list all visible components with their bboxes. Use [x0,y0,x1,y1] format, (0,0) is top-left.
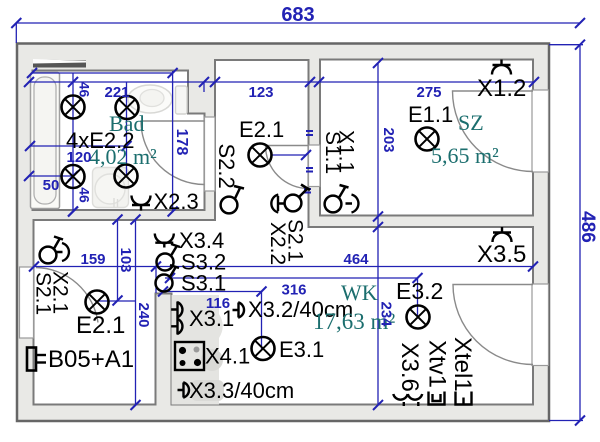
svg-text:240: 240 [135,302,152,327]
vert to lamp E3.2 x=417.5 [417,278,419,317]
lamp E3.2 [407,306,430,329]
tel socket Xtel1 bottom wall [456,392,472,405]
svg-text:X2.3: X2.3 [154,189,199,214]
vert through bath lamps left x=73 [72,73,74,212]
svg-text:46: 46 [76,187,92,203]
svg-text:234: 234 [378,301,395,327]
SZ balcony door leaf + arc [453,91,534,172]
socket X3.2 counter [233,302,245,317]
dim 683 line top [16,22,580,24]
socket X3.1 kitchen wall (double) [171,302,182,335]
svg-text:178: 178 [173,129,190,156]
switch S1.1 SZ [325,185,349,212]
svg-text:E1.1: E1.1 [408,102,453,127]
switch S3.2 [157,244,181,271]
toilet [176,86,188,114]
svg-text:S2.2: S2.2 [214,144,239,189]
WK balcony door opening [532,284,549,366]
vert 240 x=135.5 [135,220,137,406]
vert through bath lamps right x=126.5 [126,82,128,176]
lamp E2.1 room [86,291,109,314]
lamp E3.1 [252,337,275,360]
lamp bath 2 [116,96,139,119]
WK balcony door leaf + arc [453,285,533,365]
svg-text:X3.5: X3.5 [477,241,526,268]
svg-text:S2.1: S2.1 [284,219,307,262]
bathtub [31,73,60,209]
kitchen counter [172,295,223,405]
dim line 159/464 y=266.5 [34,266,533,268]
entrance door arc [36,268,98,323]
building outer wall block [17,44,549,422]
svg-text:Xtv1: Xtv1 [424,340,451,388]
interior: bedroom SZ [320,60,533,216]
socket X3.3 sink [178,382,190,397]
svg-text:116: 116 [206,295,230,312]
bathroom door opening [205,117,216,191]
svg-text:X1.1: X1.1 [335,130,358,173]
interior: bathroom [33,71,205,211]
svg-text:4,02 m²: 4,02 m² [89,144,157,169]
svg-text:B05+A1: B05+A1 [48,346,134,373]
switch S2.1 hall bottom [285,185,310,212]
svg-text:46: 46 [76,82,92,98]
dim line B y=82 [28,81,534,83]
svg-text:50: 50 [43,177,60,194]
bathroom shelf/mirror [33,60,86,68]
entrance door opening (left wall niche) [20,267,34,338]
svg-text:203: 203 [380,127,397,152]
socket X3.6 bottom wall (double) [393,394,407,406]
svg-text:120: 120 [66,149,91,166]
svg-text:275: 275 [416,84,441,101]
vert 203/234 x=378 [377,63,379,405]
dim line 116 y=292 [163,291,262,293]
socket X2.1 room [56,243,69,261]
switch S3.1 [156,265,180,292]
svg-text:SZ: SZ [458,110,484,135]
hall door opening [309,145,321,187]
vert 103 x=117.5 [117,220,119,301]
stove X4.1 [175,342,204,370]
svg-text:E3.2: E3.2 [396,278,443,304]
svg-text:WK: WK [341,280,378,305]
vert short x=204 [203,82,205,92]
distribution board B05+A1 [27,348,46,371]
interior: hall + WK + lower room (white) [34,60,534,405]
vert x=156 [155,267,157,294]
svg-text:E2.1: E2.1 [239,117,284,142]
svg-text:486: 486 [577,211,598,243]
vert to lamp E3.1 x=261.5 [261,292,263,350]
socket X2.2 hall bottom (mirrored) [271,195,284,213]
SZ balcony door opening [532,90,549,172]
lamp bath 1 [62,96,85,119]
svg-text:E3.1: E3.1 [279,337,324,362]
svg-text:X4.1: X4.1 [205,344,250,369]
svg-text:123: 123 [248,84,273,101]
vert 178 x=172.6 [172,71,174,212]
hall door leaf + arc [266,146,309,189]
socket X3.4 above S3.2 [155,234,174,248]
svg-text:159: 159 [80,251,105,268]
svg-text:221: 221 [104,84,129,101]
dim line A y=73 bath [32,72,173,74]
socket X1.1 SZ [346,195,359,213]
svg-text:X3.6: X3.6 [396,343,423,392]
wash basin [93,168,129,208]
lamp E2.1 hall [249,144,272,167]
switch S2.1 room [40,237,63,264]
svg-text:Bad: Bad [109,111,144,136]
wiring = marks on hall/SZ wall [304,131,313,193]
tv socket Xtv1 bottom wall [429,392,445,405]
lamp bath 3 [62,165,85,188]
dim line 50 y=176 [29,175,73,177]
svg-text:683: 683 [281,4,314,26]
svg-text:X2.1: X2.1 [49,271,72,314]
lamp E1.1 [416,128,439,151]
switch S2.2 hall [221,186,244,213]
dim line 316 y=278 [165,277,418,279]
socket X3.5 top of WK wall [493,227,512,242]
svg-text:464: 464 [343,251,369,268]
svg-text:X1.2: X1.2 [477,75,526,102]
svg-text:S3.1: S3.1 [181,271,226,296]
svg-text:E2.1: E2.1 [76,312,125,339]
dim 486 line right [579,45,581,421]
socket X1.2 top wall [492,60,511,75]
bathroom door leaf + arc [141,121,205,185]
dim line 103 end y=301 [98,300,136,302]
svg-text:103: 103 [117,247,134,272]
svg-text:316: 316 [281,282,306,299]
svg-text:5,65 m²: 5,65 m² [431,143,499,168]
lamp E2.1 hall connector y=155 [272,154,306,156]
dim line 120 y=146 [30,145,127,147]
socket X2.3 bath bottom wall [132,196,151,211]
svg-text:X3.3/40cm: X3.3/40cm [189,378,294,403]
svg-text:Xtel1: Xtel1 [449,337,476,392]
lamp bath 4 [115,165,138,188]
